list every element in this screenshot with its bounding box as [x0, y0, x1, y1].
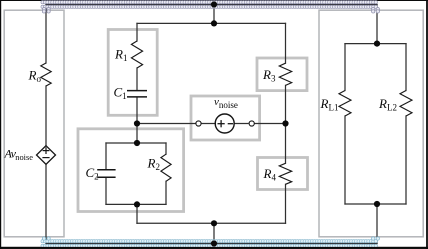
wire [137, 22, 286, 24]
wire [45, 164, 47, 243]
junction [374, 41, 380, 47]
selection box v_noise [191, 96, 260, 140]
wire [45, 5, 47, 64]
resistor R2 [161, 154, 171, 181]
wire [405, 116, 407, 204]
wire [344, 116, 346, 204]
wire [405, 44, 407, 91]
wire [136, 204, 138, 223]
bottom net wire core [46, 243, 377, 245]
selection box R4 [258, 158, 308, 190]
source v_noise [196, 114, 254, 133]
wire [285, 23, 287, 63]
wire [136, 68, 138, 90]
wire [255, 123, 286, 125]
wire [213, 223, 215, 243]
wire [376, 204, 378, 244]
resistor R1 [131, 41, 142, 68]
wire [285, 124, 287, 164]
wire [136, 23, 138, 41]
junction [374, 201, 380, 207]
highlighted top net (purple rings) [41, 1, 378, 9]
junction [211, 220, 217, 226]
selection box C2 R2 [78, 129, 184, 212]
wire [344, 44, 346, 91]
selection box right section [319, 10, 423, 237]
wire [165, 181, 167, 204]
wire [45, 86, 47, 146]
junction [282, 120, 288, 126]
wire [213, 5, 215, 24]
wire [106, 142, 166, 144]
selection box R3 [257, 58, 307, 91]
wire [137, 222, 286, 224]
wire [106, 203, 166, 205]
top net wire core [46, 4, 377, 6]
capacitor C2 [97, 170, 115, 178]
wire [285, 85, 287, 123]
junction [211, 20, 217, 26]
junction [134, 120, 140, 126]
wire [105, 143, 107, 169]
wire [46, 4, 377, 6]
junction on top net [211, 1, 217, 7]
wire [137, 123, 196, 125]
wire [345, 43, 406, 45]
wire [234, 123, 248, 125]
junction [134, 140, 140, 146]
wire [136, 124, 138, 144]
border bottom redraw [0, 247, 428, 249]
wire [105, 178, 107, 205]
junction [211, 240, 217, 246]
resistor RL1 [339, 91, 351, 117]
dependent source Av_noise [37, 146, 56, 165]
wire [46, 243, 377, 245]
junction on bottom net [211, 240, 217, 246]
wire [345, 203, 406, 205]
wire [136, 98, 138, 124]
selection box R1 C1 [108, 30, 157, 116]
capacitor C1 [127, 91, 147, 97]
wire [165, 143, 167, 154]
highlighted bottom net (blue rings) [41, 240, 378, 248]
wire [201, 123, 215, 125]
wire [285, 184, 287, 223]
junction [134, 201, 140, 207]
resistor R4 [279, 163, 291, 184]
resistor Ro [41, 63, 51, 86]
junction [211, 1, 217, 7]
selection box left section [4, 10, 64, 237]
wire [376, 5, 378, 44]
resistor R3 [279, 63, 291, 85]
resistor RL2 [400, 91, 412, 117]
